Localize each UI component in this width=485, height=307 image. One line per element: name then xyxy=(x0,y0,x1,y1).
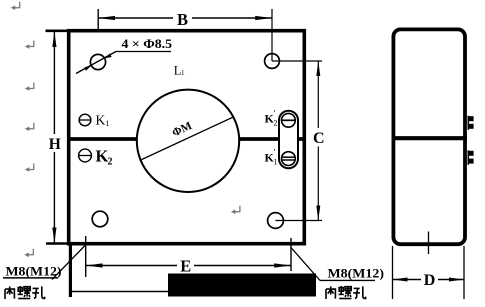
svg-text:4 × Φ8.5: 4 × Φ8.5 xyxy=(122,37,173,51)
svg-text:2: 2 xyxy=(274,119,278,128)
svg-text:M8(M12): M8(M12) xyxy=(328,266,385,280)
svg-text:E: E xyxy=(180,257,191,276)
svg-text:M8(M12): M8(M12) xyxy=(6,264,62,278)
svg-text:D: D xyxy=(424,272,436,289)
svg-text:′: ′ xyxy=(274,109,276,119)
svg-text:′: ′ xyxy=(274,148,276,158)
svg-text:1: 1 xyxy=(106,119,110,128)
svg-text:1: 1 xyxy=(274,158,278,167)
svg-text:1: 1 xyxy=(181,69,185,77)
svg-text:C: C xyxy=(313,130,325,147)
svg-text:B: B xyxy=(177,10,188,29)
svg-text:2: 2 xyxy=(108,157,113,168)
svg-text:K: K xyxy=(96,113,106,128)
svg-text:H: H xyxy=(49,136,61,153)
